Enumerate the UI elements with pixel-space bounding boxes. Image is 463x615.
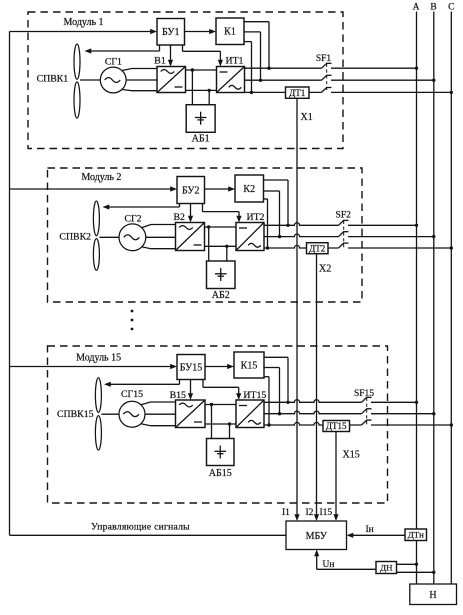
inverter IT1 xyxy=(217,67,245,93)
wire control to module 1 xyxy=(10,31,151,33)
3-phase wires SG15 to V15 xyxy=(141,402,176,405)
3-phase wires SG1 to V1 xyxy=(122,69,157,71)
generator SG15 xyxy=(119,401,145,427)
svg-text:СГ1: СГ1 xyxy=(105,57,122,68)
svg-text:Iн: Iн xyxy=(366,525,374,535)
svg-text:ДТ15: ДТ15 xyxy=(326,421,347,431)
phase wire 3 IT2 to bus C xyxy=(264,245,339,248)
bus C wire xyxy=(450,12,452,585)
svg-text:АБ15: АБ15 xyxy=(209,468,232,479)
phase wire 2 IT1 to bus B xyxy=(245,79,322,81)
svg-text:СПВК15: СПВК15 xyxy=(57,409,94,420)
measurement wire X15 to MBU xyxy=(335,432,337,516)
phase wire 1 IT1 to bus A xyxy=(245,67,322,69)
wire BU1 to IT1 gate xyxy=(182,45,184,51)
main control unit MBU xyxy=(286,521,347,550)
load block N xyxy=(410,584,457,605)
DC link wires V15-IT15 xyxy=(205,404,236,406)
svg-text:I15: I15 xyxy=(320,508,333,518)
voltage sensor DN wire to MBU (Un) xyxy=(317,568,376,570)
svg-text:I1: I1 xyxy=(282,508,290,518)
wind turbine SPVK2 (propeller) xyxy=(93,201,99,236)
svg-text:СПВК1: СПВК1 xyxy=(37,73,69,84)
svg-text:SF1: SF1 xyxy=(316,54,332,64)
phase wire 1 IT2 to bus A xyxy=(264,223,339,226)
ellipsis between module 2 and module 15 xyxy=(131,310,134,313)
switch unit K1 xyxy=(216,18,244,45)
svg-text:ДТ2: ДТ2 xyxy=(309,243,325,253)
battery AB1 xyxy=(186,105,215,133)
svg-text:А: А xyxy=(413,3,420,13)
generator SG1 xyxy=(100,67,126,93)
current sensor DT2 xyxy=(307,243,329,254)
DC link wires V1-IT1 xyxy=(186,69,217,71)
phase wire 3 IT15 to bus C xyxy=(264,422,362,425)
current sensor DT15 xyxy=(323,421,350,432)
svg-text:К1: К1 xyxy=(224,27,236,38)
switch unit K2 xyxy=(235,175,264,202)
rectifier V15 xyxy=(176,400,206,428)
wire BU2 to IT2 gate xyxy=(202,204,204,212)
rectifier V1 xyxy=(157,67,186,93)
svg-text:БУ15: БУ15 xyxy=(180,362,202,373)
shaft wire SPVK15-SG15 xyxy=(101,413,119,415)
svg-text:Uн: Uн xyxy=(323,560,335,570)
svg-text:Модуль 2: Модуль 2 xyxy=(81,172,121,183)
phase wire 2 IT2 to bus B xyxy=(264,234,339,237)
voltage sensor DN xyxy=(376,562,397,574)
svg-text:В2: В2 xyxy=(174,212,186,223)
control trunk wire (left vertical + top corner) xyxy=(9,32,11,536)
module 2 dashed boundary box xyxy=(48,168,363,302)
wind turbine SPVK15 (propeller) xyxy=(95,378,101,413)
control unit BU1 xyxy=(157,19,185,46)
svg-text:Н: Н xyxy=(429,590,436,601)
svg-text:В1: В1 xyxy=(154,56,166,67)
svg-text:БУ1: БУ1 xyxy=(162,27,179,38)
svg-text:X2: X2 xyxy=(319,264,331,275)
wire DN to bus B xyxy=(397,571,434,573)
svg-text:Модуль 15: Модуль 15 xyxy=(76,353,121,364)
wire K2 output to phase (x=267.5) xyxy=(264,198,268,200)
wire BU15 to V15 gate xyxy=(190,380,192,395)
wire K2 output to phase (x=279.5) xyxy=(264,190,280,192)
wire control to module 2 xyxy=(10,188,171,190)
wire K1 output to phase (x=269) xyxy=(244,21,269,23)
svg-text:Управляющие сигналы: Управляющие сигналы xyxy=(91,522,190,533)
current sensor DT1 xyxy=(286,87,310,98)
phase wire 2 IT15 to bus B xyxy=(264,411,362,414)
control unit BU15 xyxy=(177,355,205,380)
wire K2 output to phase (x=288) xyxy=(264,179,289,181)
phase wire 3 IT1 to bus C xyxy=(245,91,322,93)
load current sensor DTn wire to MBU (In) xyxy=(352,534,405,536)
battery tap wires to AB1 xyxy=(191,70,193,105)
svg-text:X15: X15 xyxy=(343,450,360,461)
feedback wire BU2 to turbine pitch xyxy=(179,204,181,208)
control unit BU2 xyxy=(177,177,205,204)
module 15 dashed boundary box xyxy=(48,346,388,503)
svg-text:АБ1: АБ1 xyxy=(192,134,210,145)
wire K15 output to phase (x=288) xyxy=(264,356,288,358)
svg-text:ДТн: ДТн xyxy=(408,530,424,540)
measurement wire X2 to MBU xyxy=(316,254,318,515)
shaft wire SPVK1-SG1 xyxy=(80,79,100,81)
bus B wire xyxy=(433,12,435,585)
module 1 dashed boundary box xyxy=(28,12,343,149)
svg-text:ИТ2: ИТ2 xyxy=(247,212,265,223)
svg-text:СГ2: СГ2 xyxy=(124,213,141,224)
svg-text:SF2: SF2 xyxy=(336,211,352,221)
3-phase wires SG2 to V2 xyxy=(141,225,175,228)
wire control to module 15 xyxy=(10,366,171,368)
svg-text:ДН: ДН xyxy=(380,563,393,573)
rectifier V2 xyxy=(176,223,205,251)
svg-text:С: С xyxy=(448,3,454,13)
svg-text:В: В xyxy=(430,3,436,13)
wire K1 output to phase (x=260.5) xyxy=(244,31,261,33)
bus A wire xyxy=(416,12,418,585)
svg-text:СГ15: СГ15 xyxy=(121,389,143,400)
svg-text:К2: К2 xyxy=(243,184,255,195)
battery AB2 xyxy=(207,261,236,289)
svg-text:МБУ: МБУ xyxy=(306,531,328,542)
svg-text:СПВК2: СПВК2 xyxy=(59,232,91,243)
wire BU1 to V1 gate xyxy=(170,45,172,61)
wire BU15 to IT15 gate xyxy=(202,380,204,388)
wire BU2 to V2 gate xyxy=(190,204,192,218)
feedback wire BU1 to turbine pitch xyxy=(159,45,161,51)
svg-text:X1: X1 xyxy=(301,112,313,123)
inverter IT15 xyxy=(236,400,264,428)
svg-text:ИТ1: ИТ1 xyxy=(226,56,244,67)
svg-text:ДТ1: ДТ1 xyxy=(289,88,305,98)
wire control trunk to MBU xyxy=(10,534,287,536)
shaft wire SPVK2-SG2 xyxy=(99,236,119,238)
svg-text:АБ2: АБ2 xyxy=(212,290,230,301)
phase wire 1 IT15 to bus A xyxy=(264,400,362,403)
svg-text:Модуль 1: Модуль 1 xyxy=(63,17,103,28)
wire K15 output to phase (x=269) xyxy=(264,376,269,378)
load current sensor DTn xyxy=(405,529,427,541)
wire DN to bus A xyxy=(397,563,417,565)
svg-text:К15: К15 xyxy=(241,360,258,371)
battery tap wires to AB2 xyxy=(208,227,210,261)
battery tap wires to AB15 xyxy=(211,405,213,439)
wire K15 output to phase (x=279.5) xyxy=(264,367,280,369)
battery AB15 xyxy=(207,439,235,466)
generator SG2 xyxy=(119,224,146,251)
svg-text:БУ2: БУ2 xyxy=(182,185,199,196)
wind turbine SPVK1 (propeller) xyxy=(74,44,80,79)
measurement wire X1 to MBU xyxy=(296,98,298,515)
wire BU1 to K1 xyxy=(185,31,211,33)
wire BU2 to K2 xyxy=(205,188,230,190)
wire BU15 to K15 xyxy=(205,366,229,368)
switch unit K15 xyxy=(234,352,264,378)
wire K1 output to phase (x=251.5) xyxy=(244,41,252,43)
inverter IT2 xyxy=(236,223,264,251)
svg-text:I2: I2 xyxy=(306,508,314,518)
DC link wires V2-IT2 xyxy=(205,226,237,228)
feedback wire BU15 to turbine pitch xyxy=(179,380,181,385)
